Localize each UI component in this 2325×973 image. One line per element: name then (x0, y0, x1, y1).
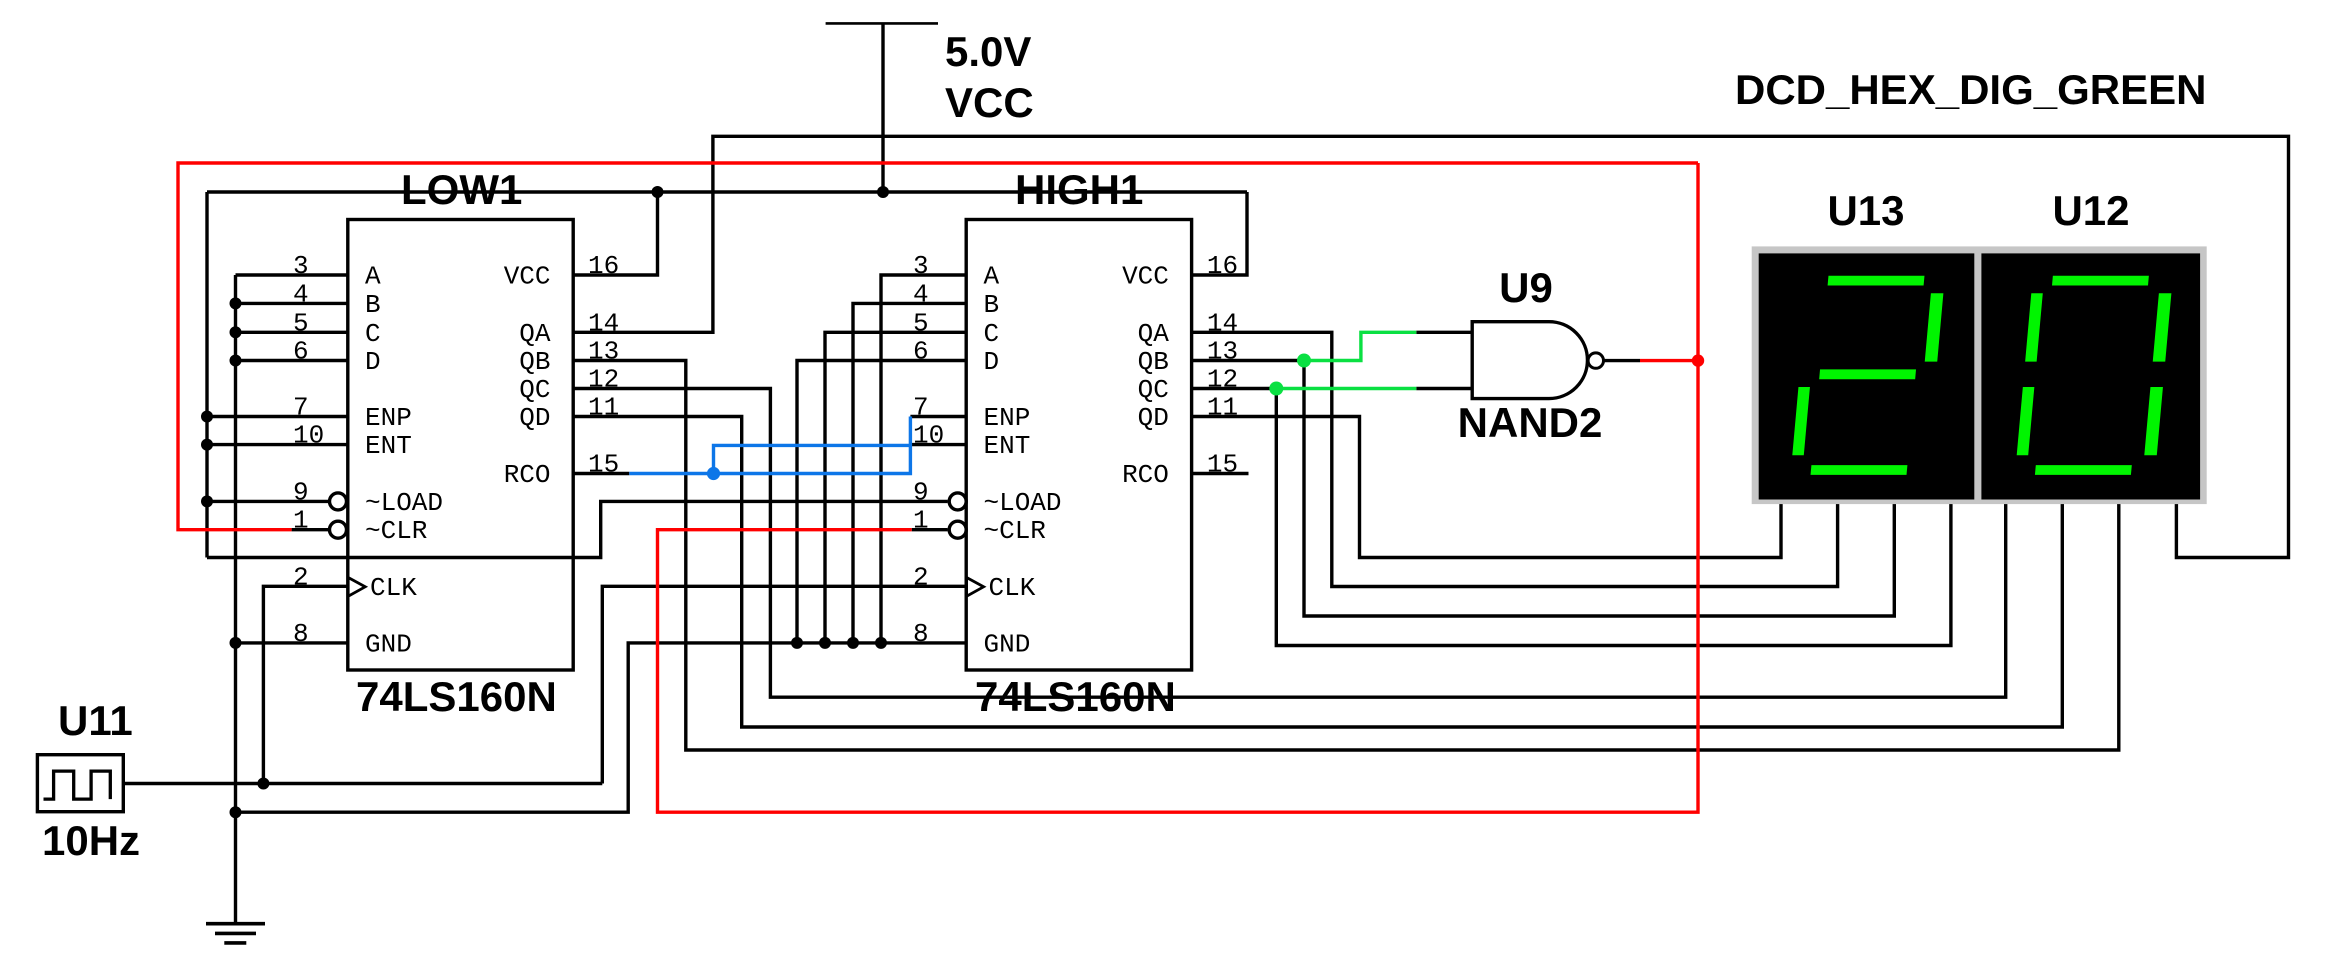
wire HIGH1 ~CLR stub (912, 528, 948, 531)
svg-text:11: 11 (1207, 393, 1238, 423)
svg-text:A: A (984, 262, 1000, 292)
junction LOW1 GND (230, 637, 242, 649)
svg-text:QC: QC (1138, 375, 1169, 405)
clock triangle HIGH1 (967, 578, 984, 597)
svg-text:3: 3 (293, 251, 309, 281)
svg-text:VCC: VCC (504, 262, 551, 292)
wire HIGH1 input C tie (825, 332, 966, 643)
svg-text:10: 10 (293, 421, 324, 451)
junction VCC rail / pin16 (652, 186, 664, 198)
svg-text:9: 9 (913, 477, 929, 507)
svg-text:~LOAD: ~LOAD (365, 488, 443, 518)
pin bubble LOW1 ~CLR (330, 521, 347, 538)
junction ENT (201, 439, 213, 451)
svg-text:1: 1 (293, 506, 309, 536)
svg-text:4: 4 (913, 279, 929, 309)
svg-text:10Hz: 10Hz (42, 817, 140, 864)
svg-text:3: 3 (913, 251, 929, 281)
display U13 panel (1759, 253, 1975, 499)
wire HIGH1 input A tie (881, 275, 966, 643)
counter U: LOW1 74LS160N body (348, 220, 573, 671)
wire HIGH1 GND to ground (236, 643, 967, 812)
svg-text:NAND2: NAND2 (1458, 399, 1603, 446)
wire LOW1 ENT stub (207, 443, 348, 446)
wire VCC chain to HIGH1 ~LOAD (207, 501, 948, 557)
wire NAND input 2 stub (1416, 387, 1472, 390)
svg-text:C: C (365, 319, 381, 349)
svg-text:U12: U12 (2052, 187, 2129, 234)
svg-text:ENT: ENT (984, 431, 1031, 461)
segment U13 E (1792, 387, 1810, 455)
svg-text:ENT: ENT (365, 431, 412, 461)
svg-text:2: 2 (913, 562, 929, 592)
svg-text:1: 1 (913, 506, 929, 536)
svg-text:U13: U13 (1827, 187, 1904, 234)
wire HIGH1 QC to U13 pin4 (1192, 389, 1951, 646)
wire U11 output clock line (123, 782, 602, 785)
svg-text:LOW1: LOW1 (401, 166, 522, 213)
svg-text:B: B (984, 290, 1000, 320)
wire green QC to NAND input 2 (1276, 387, 1416, 390)
gate U9 output bubble (1588, 353, 1603, 368)
junction blue RCO node (707, 467, 720, 480)
segment U12 B (2153, 293, 2172, 361)
wire blue branch to HIGH1 ENT (714, 445, 911, 473)
svg-text:74LS160N: 74LS160N (356, 673, 557, 720)
power symbol VCC bar (826, 22, 938, 25)
svg-text:QB: QB (1138, 347, 1169, 377)
svg-text:7: 7 (293, 393, 309, 423)
junction ground line (230, 806, 242, 818)
wire ground bus vertical (234, 275, 237, 924)
svg-text:U11: U11 (58, 697, 133, 744)
svg-text:16: 16 (1207, 251, 1238, 281)
segment U12 E (2017, 387, 2035, 455)
wire LOW1 CLK (263, 586, 347, 783)
segment U12 C (2144, 387, 2163, 455)
wire HIGH1 CLK (602, 586, 966, 783)
svg-text:15: 15 (588, 450, 619, 480)
junction CLK clock line (257, 778, 269, 790)
svg-text:8: 8 (293, 619, 309, 649)
wire HIGH1 ENP stub (910, 415, 966, 418)
svg-text:7: 7 (913, 393, 929, 423)
svg-text:10: 10 (913, 421, 944, 451)
wire LOW1 input D (236, 359, 348, 362)
wire HIGH1 QA to U13 pin2 (1192, 332, 1838, 586)
pin bubble HIGH1 ~CLR (949, 521, 966, 538)
gate U9 NAND2 body (1472, 322, 1587, 399)
wire LOW1 GND stub (236, 641, 348, 644)
wire LOW1 ~CLR stub (292, 528, 330, 531)
wire VCC stem (881, 23, 884, 192)
svg-text:DCD_HEX_DIG_GREEN: DCD_HEX_DIG_GREEN (1735, 66, 2206, 113)
segment U12 F (2025, 293, 2043, 361)
wire blue RCO to HIGH1 ENP (629, 417, 910, 474)
svg-text:CLK: CLK (989, 573, 1036, 603)
svg-text:5: 5 (293, 308, 309, 338)
ground symbol (206, 924, 265, 943)
segment U13 B (1925, 293, 1944, 361)
junction input B (230, 297, 242, 309)
wire red NAND output to LOW1 ~CLR (178, 163, 1698, 530)
svg-text:QA: QA (519, 319, 551, 349)
junction HIGH1 GND / C tie (819, 637, 831, 649)
wire LOW1 QB to U12 pin3 (573, 361, 2119, 751)
junction input D (230, 355, 242, 367)
junction ENP (201, 411, 213, 423)
junction green QC node (1269, 382, 1283, 396)
wire rail drop to ENP/ENT/~LOAD (LOW1) (205, 192, 208, 558)
junction HIGH1 GND / B tie (847, 637, 859, 649)
svg-text:ENP: ENP (984, 403, 1031, 433)
wire HIGH1 pin16 VCC (1192, 192, 1247, 275)
pin bubble HIGH1 ~LOAD (949, 493, 966, 510)
wire green QB to NAND input 1 (1304, 332, 1416, 360)
svg-text:11: 11 (588, 393, 619, 423)
wire LOW1 QC to U12 pin1 (573, 389, 2006, 698)
wire LOW1 input A (236, 273, 348, 276)
segment U12 A (2052, 276, 2149, 286)
junction HIGH1 GND / A tie (875, 637, 887, 649)
svg-text:12: 12 (1207, 365, 1238, 395)
display U13 U12 frame (1752, 246, 2207, 504)
wire HIGH1 input D tie (797, 361, 966, 643)
svg-text:GND: GND (984, 629, 1031, 659)
segment U13 A (1828, 276, 1925, 286)
segment U13 G (1819, 369, 1916, 379)
svg-text:6: 6 (293, 337, 309, 367)
junction HIGH1 GND / D tie (791, 637, 803, 649)
svg-text:~CLR: ~CLR (365, 516, 427, 546)
svg-text:14: 14 (588, 308, 619, 338)
svg-text:15: 15 (1207, 450, 1238, 480)
pin bubble LOW1 ~LOAD (330, 493, 347, 510)
wire red NAND output segment (1640, 359, 1698, 362)
svg-text:13: 13 (588, 337, 619, 367)
svg-text:RCO: RCO (1122, 460, 1169, 490)
svg-text:D: D (984, 347, 1000, 377)
junction ~LOAD (201, 495, 213, 507)
svg-text:C: C (984, 319, 1000, 349)
junction VCC rail / stem (877, 186, 889, 198)
svg-text:13: 13 (1207, 337, 1238, 367)
wire HIGH1 QD to U13 pin1 (1192, 417, 1781, 558)
svg-text:8: 8 (913, 619, 929, 649)
junction green QB node (1297, 354, 1311, 368)
svg-text:QC: QC (519, 375, 550, 405)
svg-text:4: 4 (293, 279, 309, 309)
svg-text:~LOAD: ~LOAD (984, 488, 1062, 518)
wire HIGH1 QB to U13 pin3 (1192, 361, 1895, 617)
segment U12 D (2035, 465, 2132, 475)
svg-text:HIGH1: HIGH1 (1015, 166, 1143, 213)
display U12 digit 0 segments (2015, 276, 2173, 475)
clock source U11 square wave glyph (44, 771, 111, 799)
segment U13 D (1811, 465, 1908, 475)
wire VCC rail (207, 190, 1247, 193)
svg-text:5: 5 (913, 308, 929, 338)
svg-text:~CLR: ~CLR (984, 516, 1046, 546)
svg-text:5.0V: 5.0V (945, 28, 1031, 75)
svg-text:ENP: ENP (365, 403, 412, 433)
wire LOW1 input C (236, 331, 348, 334)
wire LOW1 QA to U12 pin4 (573, 136, 2288, 557)
wire NAND input 1 stub (1416, 331, 1472, 334)
svg-text:9: 9 (293, 477, 309, 507)
svg-text:VCC: VCC (1122, 262, 1169, 292)
svg-text:2: 2 (293, 562, 309, 592)
junction input C (230, 326, 242, 338)
display U13 digit 2 segments (1791, 276, 1945, 475)
wire LOW1 pin16 VCC (573, 192, 657, 275)
svg-text:RCO: RCO (504, 460, 551, 490)
counter U: HIGH1 74LS160N body (966, 220, 1191, 671)
junction red node at NAND output (1692, 354, 1704, 366)
wire HIGH1 input B tie (853, 303, 966, 643)
svg-text:6: 6 (913, 337, 929, 367)
svg-text:QA: QA (1138, 319, 1170, 349)
svg-text:B: B (365, 290, 381, 320)
svg-text:U9: U9 (1499, 264, 1553, 311)
svg-text:VCC: VCC (945, 79, 1034, 126)
svg-text:16: 16 (588, 251, 619, 281)
svg-text:A: A (365, 262, 381, 292)
wire LOW1 RCO stub (573, 472, 629, 475)
wire HIGH1 ENT stub (910, 443, 966, 446)
wire LOW1 ENP stub (207, 415, 348, 418)
clock triangle LOW1 (348, 578, 365, 597)
svg-text:QD: QD (1138, 403, 1169, 433)
svg-text:QD: QD (519, 403, 550, 433)
svg-text:GND: GND (365, 629, 412, 659)
svg-text:12: 12 (588, 365, 619, 395)
wire LOW1 QD to U12 pin2 (573, 417, 2062, 728)
display U12 panel (1981, 253, 2200, 499)
svg-text:CLK: CLK (370, 573, 417, 603)
wire NAND output stub (1604, 359, 1640, 362)
svg-text:D: D (365, 347, 381, 377)
svg-text:14: 14 (1207, 308, 1238, 338)
clock source U11 box (37, 755, 123, 812)
wire LOW1 ~LOAD stub (207, 500, 330, 503)
svg-text:QB: QB (519, 347, 550, 377)
wire red NAND output down (658, 163, 1699, 812)
wire LOW1 input B (236, 302, 348, 305)
wire HIGH1 RCO stub (1192, 472, 1249, 475)
